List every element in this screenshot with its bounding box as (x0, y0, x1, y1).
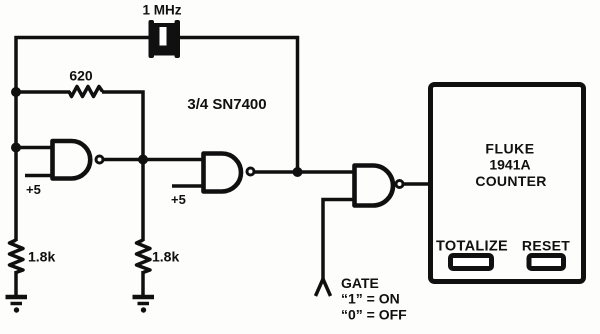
nand gate U1B (204, 154, 255, 192)
button RESET (529, 256, 564, 269)
svg-text:“1” = ON: “1” = ON (341, 291, 400, 307)
button TOTALIZE (451, 256, 492, 269)
svg-text:FLUKE: FLUKE (485, 141, 534, 157)
svg-text:RESET: RESET (522, 238, 570, 254)
node D junction dot (138, 155, 148, 165)
wire: U1B output to U1C input (255, 170, 356, 174)
svg-text:1 MHz: 1 MHz (142, 3, 181, 18)
wire: R1 to vertical feedback drop (102, 92, 143, 160)
wire: node A to R1 (16, 90, 70, 94)
wire: rail to U1A top input (16, 146, 52, 150)
wire: U1A +5 input stub (25, 174, 52, 178)
counter box Fluke 1941A (431, 85, 584, 282)
wire: R2 to ground (14, 271, 18, 296)
svg-text:1.8k: 1.8k (28, 249, 55, 265)
svg-text:COUNTER: COUNTER (475, 173, 546, 189)
wire: R3 to ground (141, 271, 145, 296)
gate input fork terminal (316, 279, 331, 296)
svg-text:620: 620 (69, 68, 93, 84)
node C junction dot (11, 143, 21, 153)
svg-text:3/4 SN7400: 3/4 SN7400 (187, 96, 266, 113)
crystal Y1 (149, 20, 181, 58)
wire: node D down to R2 (141, 160, 145, 242)
ground (left) (6, 297, 28, 313)
svg-text:TOTALIZE: TOTALIZE (436, 239, 508, 255)
svg-text:+5: +5 (171, 192, 186, 207)
ground (right) (133, 297, 155, 313)
svg-text:GATE: GATE (341, 275, 379, 291)
resistor R2 1.8k (10, 240, 24, 273)
svg-text:1.8k: 1.8k (152, 249, 179, 265)
node A junction dot (11, 87, 21, 97)
wire: U1A output to U1B input (104, 158, 204, 162)
resistor R1 620 (69, 87, 103, 97)
svg-text:+5: +5 (26, 182, 41, 197)
wire: top loop left horizontal segment (15, 36, 152, 40)
wire: top loop right horizontal segment (177, 36, 299, 40)
node B junction dot (293, 167, 303, 177)
svg-text:1941A: 1941A (489, 157, 530, 173)
wire: left vertical rail (14, 36, 18, 241)
svg-text:“0” = OFF: “0” = OFF (341, 307, 407, 323)
wire: right vertical of crystal loop down to node B (296, 36, 300, 172)
wire: U1B +5 input stub (172, 184, 204, 188)
wire: U1C output to counter (404, 182, 431, 186)
nand gate U1C (355, 166, 404, 206)
nand gate U1A (53, 141, 104, 179)
wire: U1C gate input from fork terminal (323, 200, 355, 282)
resistor R3 1.8k (137, 240, 151, 273)
